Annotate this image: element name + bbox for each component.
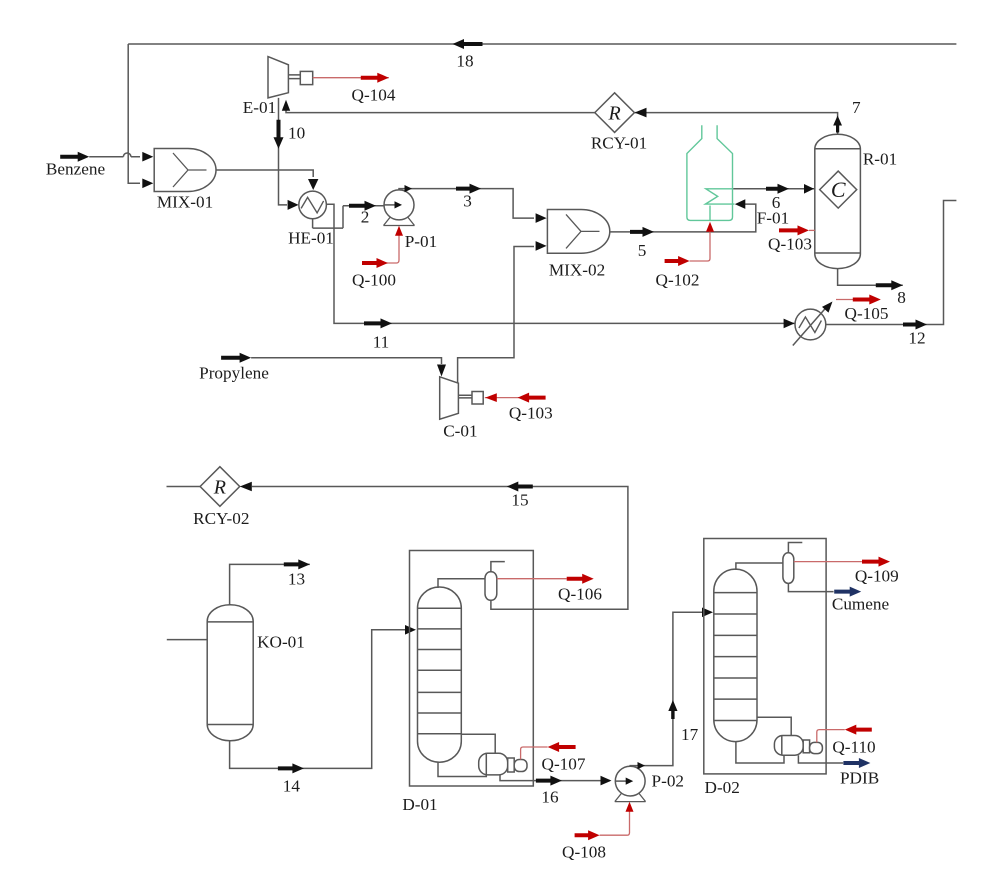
svg-text:PDIB: PDIB	[840, 769, 879, 788]
wire stream 3	[399, 189, 534, 219]
energy arrow Q-110	[845, 725, 872, 735]
svg-text:Q-110: Q-110	[832, 738, 875, 757]
svg-text:D-01: D-01	[402, 795, 437, 814]
wire stream 13	[230, 564, 310, 604]
stream arrow 18	[453, 39, 483, 49]
furnace F-01	[687, 125, 733, 220]
svg-text:Q-107: Q-107	[542, 755, 586, 774]
svg-text:8: 8	[897, 288, 906, 307]
wire stream 6	[733, 188, 815, 190]
pump P-01	[384, 217, 415, 225]
arrow into E-01 bottom	[282, 100, 290, 111]
energy wire Q-103 (compressor)	[485, 397, 545, 399]
energy arrow Q-109	[862, 557, 890, 567]
svg-text:R-01: R-01	[863, 150, 897, 169]
stream arrow 7	[833, 116, 842, 133]
energy wire Q-103 (reactor)	[809, 229, 815, 231]
subflowsheet box D-02	[704, 539, 826, 774]
energy wire Q-107	[521, 747, 548, 760]
stream arrow 12	[903, 320, 927, 330]
arrow into MIX-02 lower inlet	[536, 241, 547, 251]
wire D-02 bottoms	[736, 742, 784, 763]
energy wire Q-105	[836, 299, 853, 301]
wire stream 7	[635, 113, 838, 135]
svg-text:13: 13	[288, 570, 305, 589]
svg-text:Q-103: Q-103	[509, 404, 553, 423]
svg-text:12: 12	[908, 329, 925, 348]
wire stream 12	[826, 201, 957, 325]
arrow into C-01	[437, 365, 446, 377]
product arrow Cumene	[834, 587, 861, 597]
svg-text:RCY-01: RCY-01	[591, 134, 647, 153]
svg-text:5: 5	[638, 241, 647, 260]
stream arrow 13	[284, 559, 310, 569]
wire stream 18 drop to MIX-01	[128, 44, 140, 183]
wire stream 18 (top recycle line)	[128, 43, 956, 45]
arrow into HE-01 top	[308, 179, 318, 190]
wire D-01 condensate out	[491, 600, 533, 609]
feed wire into KO-01	[167, 639, 207, 641]
energy arrow Q-104	[361, 73, 389, 83]
stream arrow 11	[364, 318, 392, 328]
arrow into D-01 feed	[405, 625, 416, 635]
svg-text:10: 10	[288, 124, 305, 143]
svg-text:Propylene: Propylene	[199, 364, 269, 383]
svg-text:Q-105: Q-105	[845, 304, 889, 323]
wire stream 2	[343, 205, 384, 207]
cooler symbol	[795, 309, 826, 340]
arrow into MIX-02 upper inlet	[536, 213, 547, 223]
arrow into MIX-01 upper inlet	[142, 152, 153, 162]
energy wire Q-102	[690, 225, 710, 261]
arrow into P-02	[601, 776, 612, 786]
svg-text:Q-106: Q-106	[558, 585, 602, 604]
pump P-02	[615, 794, 646, 802]
svg-text:E-01: E-01	[243, 98, 276, 117]
svg-text:2: 2	[361, 208, 370, 227]
wire stream 5	[610, 204, 756, 232]
svg-text:C-01: C-01	[443, 422, 477, 441]
energy arrow Q-100	[362, 258, 388, 268]
svg-text:7: 7	[852, 98, 861, 117]
energy arrow Q-103 (compressor)	[485, 393, 497, 402]
wire stream 11	[334, 228, 795, 323]
subflowsheet box D-01	[410, 551, 534, 787]
svg-text:C: C	[831, 177, 846, 202]
wire stream 14	[230, 630, 408, 769]
column tower D-02	[714, 569, 757, 742]
vessel KO-01	[207, 605, 253, 741]
svg-text:D-02: D-02	[705, 778, 740, 797]
stream arrow 10	[274, 120, 284, 149]
stream arrow 3	[456, 184, 481, 194]
reboiler D-02	[774, 736, 803, 756]
svg-text:R: R	[607, 102, 620, 124]
energy arrow Q-105	[853, 295, 881, 305]
wire stream 15	[252, 487, 628, 610]
mixer MIX-01	[154, 149, 216, 192]
svg-text:R: R	[213, 476, 226, 498]
stream arrow 17	[668, 700, 677, 719]
wire RCY-01 recycle to E-01	[286, 110, 595, 113]
recycle RCY-01	[595, 93, 635, 133]
energy wire Q-108	[600, 804, 630, 835]
wire RCY-02 outlet	[167, 486, 201, 488]
stream arrow 15	[507, 482, 533, 492]
stream arrow 5	[630, 227, 654, 237]
arrow into HE-01 left	[288, 200, 299, 210]
energy arrow Q-103 (reactor)	[779, 225, 809, 235]
svg-text:MIX-01: MIX-01	[157, 193, 213, 212]
arrow into RCY-01	[635, 108, 647, 118]
svg-text:Cumene: Cumene	[832, 595, 890, 614]
energy arrow Q-108	[575, 830, 600, 840]
condenser D-01	[485, 572, 497, 601]
condenser D-02	[783, 553, 794, 584]
reboiler D-01	[479, 753, 508, 775]
wire MIX-01 outlet to HE-01	[216, 170, 313, 177]
energy wire Q-109	[794, 561, 862, 563]
stream arrow 6	[766, 184, 789, 194]
wire D-02 boilup	[757, 717, 791, 735]
svg-text:HE-01: HE-01	[288, 229, 334, 248]
svg-text:6: 6	[772, 193, 781, 212]
svg-text:3: 3	[463, 192, 472, 211]
svg-text:Q-108: Q-108	[562, 843, 606, 862]
column tower D-01	[418, 587, 462, 762]
energy wire Q-104	[313, 77, 389, 79]
svg-text:18: 18	[456, 52, 473, 71]
svg-text:P-01: P-01	[405, 232, 437, 251]
svg-text:Q-103: Q-103	[768, 235, 812, 254]
stream arrow 16	[536, 776, 562, 786]
wire D-02 overhead to condenser	[736, 563, 783, 570]
energy arrow Q-106	[567, 574, 594, 584]
svg-text:Q-100: Q-100	[352, 271, 396, 290]
svg-text:MIX-02: MIX-02	[549, 261, 605, 280]
stream Benzene feed	[60, 152, 89, 162]
svg-text:17: 17	[681, 725, 699, 744]
svg-text:11: 11	[373, 333, 390, 352]
wire D-01 boilup	[461, 734, 495, 753]
expander E-01	[268, 57, 288, 98]
wire PDIB out	[798, 755, 843, 763]
svg-text:14: 14	[283, 777, 301, 796]
reactor R-01	[815, 134, 861, 268]
svg-text:KO-01: KO-01	[257, 633, 305, 652]
svg-text:Q-104: Q-104	[352, 86, 396, 105]
energy arrow Q-102	[665, 256, 690, 266]
recycle RCY-02	[200, 467, 240, 507]
arrow into cooler	[784, 319, 795, 329]
wire stream 8	[838, 269, 903, 286]
stream arrow 2	[349, 201, 376, 211]
wire stream 10	[279, 98, 288, 205]
wire D-01 overhead to condenser	[438, 579, 485, 588]
wire Cumene out	[788, 583, 833, 591]
svg-text:Q-102: Q-102	[656, 271, 700, 290]
energy wire Q-106	[497, 578, 567, 580]
wire D-01 bottoms	[438, 762, 486, 776]
compressor C-01	[440, 377, 459, 419]
svg-text:16: 16	[541, 788, 559, 807]
heat exchanger HE-01	[299, 191, 327, 219]
svg-text:P-02: P-02	[652, 772, 684, 791]
stream Propylene feed	[221, 353, 251, 363]
stream arrow 8	[876, 280, 903, 290]
arrow into RCY-02	[240, 482, 252, 492]
svg-text:Q-109: Q-109	[855, 567, 899, 586]
HE-01 shell pass loop	[313, 204, 343, 228]
energy wire Q-110	[817, 730, 845, 743]
energy arrow Q-107	[548, 742, 576, 752]
F-01 coil	[705, 189, 734, 221]
wire stream 17	[630, 612, 705, 766]
stream arrow 14	[278, 763, 304, 773]
wire C-01 discharge	[458, 247, 534, 384]
arrow into F-01 coil	[735, 199, 746, 209]
svg-text:15: 15	[511, 491, 528, 510]
arrow into D-02 feed	[702, 608, 713, 618]
product arrow PDIB	[843, 758, 870, 768]
svg-text:RCY-02: RCY-02	[193, 509, 249, 528]
svg-text:Benzene: Benzene	[46, 160, 106, 179]
energy wire Q-100	[386, 228, 399, 263]
arrow into MIX-01 lower inlet	[142, 179, 153, 189]
mixer MIX-02	[547, 210, 609, 254]
wire stream 16	[500, 775, 610, 781]
